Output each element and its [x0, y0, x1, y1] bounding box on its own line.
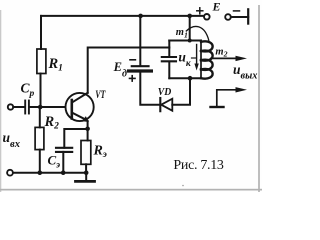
- arrow m2 output: [211, 56, 247, 61]
- node supply tap on rail: [187, 14, 192, 19]
- wire tank bottom edge: [169, 77, 201, 79]
- svg-text:Rэ: Rэ: [93, 144, 107, 161]
- svg-text:R2: R2: [44, 114, 60, 132]
- svg-text:E: E: [212, 0, 221, 14]
- minus sign Ed: [130, 59, 135, 61]
- wire input to Cp: [13, 106, 24, 108]
- svg-text:Рис. 7.13: Рис. 7.13: [173, 158, 224, 173]
- node Ce on rail: [61, 170, 66, 175]
- wire emitter down: [87, 121, 89, 129]
- plus sign Ed: [130, 76, 136, 81]
- node emitter junction: [85, 127, 90, 132]
- ground: [76, 173, 95, 182]
- capacitor Ck tank: [162, 57, 176, 61]
- wire R2 bottom to rail: [39, 150, 41, 173]
- diode VD: [160, 98, 172, 111]
- wire R1 vertical top: [40, 16, 42, 49]
- plus sign E: [197, 8, 203, 14]
- capacitor Cp: [25, 101, 29, 114]
- minus sign E: [234, 10, 240, 12]
- wire Ce to rail: [62, 152, 64, 173]
- svg-text:uвых: uвых: [233, 62, 257, 81]
- svg-text:uк: uк: [178, 49, 192, 69]
- inductor L coil: [201, 40, 213, 78]
- terminal input top: [8, 104, 13, 109]
- wire rail to tank top: [189, 16, 191, 41]
- capacitor Ce: [56, 148, 72, 152]
- wire R1 bottom to base node: [40, 74, 42, 108]
- node base junction: [38, 105, 43, 110]
- svg-text:Cэ: Cэ: [48, 152, 61, 170]
- svg-text:uвх: uвх: [3, 130, 20, 150]
- wire Cp to transistor base: [30, 106, 65, 108]
- node R2 on rail: [38, 170, 43, 175]
- node tank top junction: [188, 39, 192, 43]
- wire diode to tank bottom: [172, 78, 190, 105]
- svg-text:Eд: Eд: [113, 60, 127, 80]
- resistor R1: [37, 49, 46, 74]
- wire E minus to bar: [231, 16, 248, 18]
- wire emitter to Ce: [64, 129, 87, 148]
- svg-text:R1: R1: [48, 56, 63, 74]
- terminal input bottom: [7, 170, 13, 176]
- wire top rail: [41, 15, 204, 17]
- m1 pointer arc: [186, 26, 209, 40]
- node tank bottom junction: [188, 76, 193, 81]
- svg-text:VT: VT: [95, 87, 106, 101]
- wire output ground arrow: [211, 87, 248, 107]
- wire base node to R2: [39, 107, 41, 127]
- wire tank top edge: [169, 40, 201, 42]
- wire collector riser: [88, 48, 170, 93]
- wire rail to battery Ed: [139, 16, 141, 65]
- wire E bar: [247, 9, 249, 23]
- battery Ed: [129, 66, 152, 71]
- wire bottom rail: [13, 172, 86, 174]
- terminal E minus: [225, 14, 231, 20]
- svg-text:m1: m1: [176, 27, 188, 39]
- svg-text:VD: VD: [158, 86, 172, 98]
- wire emitter to Re: [87, 129, 89, 141]
- node ground junction: [84, 170, 89, 175]
- wire battery to diode: [140, 73, 159, 105]
- wire Re to rail: [85, 164, 87, 172]
- terminal E plus: [204, 14, 210, 20]
- transistor VT: [66, 93, 94, 122]
- resistor R2: [35, 127, 44, 149]
- wire tank left edge upper: [168, 41, 170, 57]
- svg-text:m2: m2: [215, 46, 227, 58]
- resistor Re: [81, 141, 91, 165]
- wire tank left edge lower: [168, 62, 170, 79]
- arrow uk: [192, 45, 199, 71]
- node battery tap on rail: [138, 14, 143, 19]
- svg-text:Cр: Cр: [21, 81, 35, 99]
